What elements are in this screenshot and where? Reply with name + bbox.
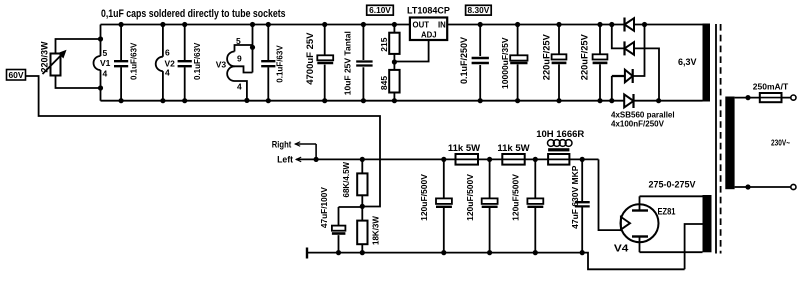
transformer primary winding [725, 97, 734, 190]
wire bridge left vertical lower [611, 76, 613, 101]
svg-text:220/3W: 220/3W [40, 41, 50, 73]
svg-text:V4: V4 [614, 244, 629, 255]
capacitor 120uF/500V (second) [489, 159, 491, 252]
svg-text:ADJ: ADJ [421, 31, 437, 40]
svg-text:V1: V1 [100, 58, 111, 68]
svg-text:120uF/500V: 120uF/500V [465, 174, 475, 221]
capacitor 120uF/500V (first) [443, 159, 445, 252]
rectifier tube V4 EZ81 [621, 204, 659, 242]
rheostat 220/3W wires [56, 39, 101, 88]
svg-text:OUT: OUT [413, 21, 430, 30]
label 8.30V box [466, 5, 492, 15]
arrow Left [296, 157, 301, 162]
wire ground rail [307, 253, 685, 270]
svg-text:4: 4 [103, 69, 108, 79]
wire center tap [685, 224, 703, 269]
resistor 215 [393, 25, 395, 70]
wire anode bottom to HV winding bottom [640, 251, 703, 253]
terminal primary top [791, 95, 796, 100]
svg-text:0,1uF caps soldered directly t: 0,1uF caps soldered directly to tube soc… [101, 8, 286, 20]
svg-text:Left: Left [277, 155, 293, 165]
capacitor 47uF 630V MKP [581, 159, 583, 252]
svg-text:10000uF/35V: 10000uF/35V [500, 37, 510, 89]
svg-text:EZ81: EZ81 [658, 206, 676, 216]
wire ADJ pin [396, 40, 429, 62]
svg-text:8.30V: 8.30V [468, 5, 490, 15]
ground rail end tick [306, 248, 308, 259]
svg-text:5: 5 [236, 36, 241, 46]
svg-text:4: 4 [237, 82, 242, 92]
svg-text:6: 6 [165, 48, 170, 58]
capacitor 220uF/25V (second) [599, 25, 601, 101]
svg-text:47uF/100V: 47uF/100V [319, 187, 329, 229]
capacitor 10000uF/35V [517, 25, 519, 101]
svg-text:9: 9 [237, 54, 242, 64]
svg-text:Right: Right [272, 140, 292, 150]
resistor 18K/3W [357, 221, 367, 245]
svg-text:60V: 60V [8, 70, 23, 80]
svg-text:4700uF 25V: 4700uF 25V [305, 32, 316, 85]
svg-text:6,3V: 6,3V [678, 57, 697, 67]
wire bottom rail right of D4 [634, 100, 703, 102]
svg-text:120uF/500V: 120uF/500V [419, 174, 429, 221]
capacitor 4700uF 25V [324, 25, 326, 101]
capacitor C2 0.1uF/63V [184, 25, 186, 101]
choke 10H 1666R [548, 154, 569, 165]
diode D3 [612, 69, 633, 83]
wire primary top + fuse 250mA/T [735, 97, 791, 99]
node B+ rail dots [441, 157, 446, 162]
tube heater V1 [94, 56, 101, 70]
svg-text:IN: IN [438, 21, 446, 30]
rheostat arrow [43, 53, 64, 74]
svg-text:V3: V3 [216, 60, 227, 70]
svg-text:845: 845 [379, 76, 389, 90]
transformer core [715, 24, 717, 254]
capacitor C1 0.1uF/63V [120, 25, 122, 101]
filament arrow V4 [621, 217, 630, 230]
wire 60V bias line [26, 76, 381, 207]
svg-text:215: 215 [379, 37, 389, 51]
resistor 11k 5W (second) [502, 154, 524, 165]
svg-text:0.1uF/63V: 0.1uF/63V [193, 42, 202, 80]
capacitor 47uF/100V [339, 207, 363, 253]
label 6.10V box [367, 5, 394, 15]
rheostat 220/3W body [51, 54, 61, 76]
regulator LT1084CP [410, 18, 447, 41]
terminal primary bottom [791, 184, 796, 189]
svg-text:11k 5W: 11k 5W [448, 143, 480, 154]
svg-text:0.1uF/63V: 0.1uF/63V [276, 45, 285, 83]
capacitor 10uF 25V Tantal [362, 25, 364, 101]
resistor 68K/4.5W [361, 159, 363, 220]
wire bottom heater rail [101, 100, 625, 102]
svg-text:5: 5 [103, 48, 108, 58]
svg-text:LT1084CP: LT1084CP [407, 6, 450, 16]
wire left bus vertical (V1 heater line) [100, 25, 102, 101]
svg-text:68K/4.5W: 68K/4.5W [342, 161, 351, 197]
wire top rail right of D1 [634, 24, 703, 26]
svg-text:4x100nF/250V: 4x100nF/250V [611, 119, 665, 128]
svg-text:10H 1666R: 10H 1666R [536, 129, 584, 140]
svg-text:10uF 25V Tantal: 10uF 25V Tantal [342, 31, 352, 95]
wire B+ to rectifier cathode [599, 159, 622, 230]
tube heater V2 [162, 25, 164, 101]
label 60V box [7, 70, 26, 81]
capacitor C3 0.1uF/63V [267, 25, 269, 101]
capacitor 220uF/25V (first) [558, 25, 560, 101]
capacitor 120uF/500V (third) [534, 159, 536, 252]
svg-text:11k 5W: 11k 5W [497, 143, 529, 154]
svg-text:4xSB560 parallel: 4xSB560 parallel [611, 111, 675, 120]
diode D1 (bridge, top rail) [623, 18, 625, 32]
wire B+ rail [296, 158, 598, 160]
node ADJ junction [392, 59, 397, 64]
svg-text:230V~: 230V~ [771, 137, 790, 147]
svg-text:47uF 630V MKP: 47uF 630V MKP [570, 165, 580, 229]
svg-text:4: 4 [165, 68, 170, 78]
wire anode top to HV winding top [640, 195, 703, 197]
svg-text:220uF/25V: 220uF/25V [580, 33, 590, 80]
capacitor 0.1uF/250V [479, 25, 481, 101]
svg-text:6.10V: 6.10V [369, 5, 391, 15]
tube heater V3 (pins 5,9,4) [235, 25, 253, 73]
node V1 bottom (rheostat tap) [98, 85, 103, 90]
svg-text:120uF/500V: 120uF/500V [511, 174, 521, 221]
wire D2 anode to right vertical 2 [634, 48, 659, 101]
wire D3 cathode to right vertical 1 [633, 25, 645, 77]
transformer HV winding 275-0-275V [703, 195, 712, 252]
arrow Right [295, 142, 300, 147]
resistor 845 [389, 70, 399, 93]
node V1 top (rheostat tap) [98, 36, 103, 41]
svg-text:0.1uF/63V: 0.1uF/63V [130, 42, 139, 80]
resistor 11k 5W (first) [456, 154, 479, 165]
svg-text:18K/3W: 18K/3W [371, 216, 380, 245]
svg-text:250mA/T: 250mA/T [753, 82, 789, 92]
transformer 6.3V winding [703, 24, 711, 102]
svg-text:275-0-275V: 275-0-275V [649, 179, 696, 189]
wire bridge left vertical upper [612, 25, 625, 49]
diode D4 (bottom rail) [632, 94, 634, 108]
wire top heater rail [101, 24, 625, 26]
wire primary bottom [735, 186, 791, 188]
svg-text:0.1uF/250V: 0.1uF/250V [459, 37, 469, 84]
diode D2 [623, 41, 625, 55]
node divider junction [360, 204, 365, 209]
svg-text:220uF/25V: 220uF/25V [542, 33, 552, 80]
